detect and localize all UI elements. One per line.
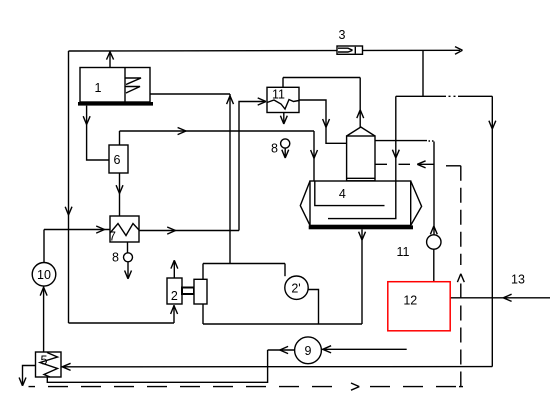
arrow down from 4 bbox=[359, 232, 366, 240]
wire 10 bottom to 5 bbox=[43, 286, 45, 352]
arrow left frame down bbox=[65, 207, 72, 215]
bottom dashed line bbox=[29, 386, 346, 388]
coupling between 2 and motor bbox=[182, 288, 194, 295]
wire 1 top stub bbox=[109, 51, 111, 68]
arrow right on 7 output bbox=[167, 227, 175, 234]
wire riser x=230 bbox=[229, 94, 231, 264]
tower roof bbox=[347, 127, 375, 136]
solution tank 12 red box bbox=[388, 282, 450, 331]
arrow up x=434 bbox=[430, 226, 437, 234]
dots at corner bbox=[429, 140, 434, 142]
arrow top line right end bbox=[455, 47, 463, 55]
wire into 7 left bbox=[44, 229, 110, 231]
ejector 3 nozzle bbox=[338, 47, 355, 54]
pump 9 circle bbox=[295, 337, 322, 364]
wire 7 bottom stub bbox=[127, 242, 129, 253]
wire valve to 12 bbox=[433, 249, 435, 282]
valve circle above 12 bbox=[427, 235, 441, 249]
svg-text:13: 13 bbox=[511, 273, 525, 287]
wire 13 inlet bbox=[450, 297, 550, 299]
absorber right edge upper bbox=[284, 264, 286, 277]
right chevron of 4 bbox=[411, 181, 422, 225]
arrow right on 131 line bbox=[178, 128, 186, 135]
wire top branch down x=423 bbox=[422, 50, 424, 96]
wire 6 to column top line bbox=[120, 130, 315, 132]
svg-text:9: 9 bbox=[305, 344, 312, 358]
svg-text:4: 4 bbox=[339, 187, 346, 201]
arrow into 7 left bbox=[96, 226, 104, 233]
drain stub below 8 upper bbox=[284, 148, 286, 157]
wire 2 top exhaust stub bbox=[173, 261, 175, 278]
arrow down x=492 bbox=[489, 121, 496, 129]
generator 1 divider bbox=[124, 68, 126, 103]
arrow left into 5 bbox=[62, 363, 70, 370]
dashed vertical lower part bbox=[460, 284, 462, 387]
wire 11 bottom stub bbox=[283, 113, 285, 124]
zigzag in 7 bbox=[110, 224, 139, 236]
ejector 3 box bbox=[337, 46, 363, 54]
wire left frame vertical bbox=[68, 51, 70, 323]
arrow down 11 bottom bbox=[280, 116, 287, 124]
generator 1 box bbox=[80, 68, 150, 103]
wire 11 top stub bbox=[282, 78, 284, 88]
evaporator 4 box bbox=[310, 181, 411, 225]
svg-text:8: 8 bbox=[271, 142, 278, 156]
wire down x=492 bbox=[491, 96, 493, 366]
dashed segment to vertical bbox=[446, 165, 461, 167]
wire riser x=239 to 11 bbox=[239, 102, 266, 231]
dots on y=96 bbox=[449, 95, 456, 97]
arrow up at top line bbox=[107, 52, 114, 60]
arrow into 2 bottom bbox=[171, 306, 178, 314]
left chevron of 4 bbox=[300, 181, 310, 225]
motor tall rect bbox=[194, 279, 207, 304]
svg-text:7: 7 bbox=[109, 230, 116, 244]
arrow down x=395 bbox=[392, 150, 399, 158]
wire 11 right to tower bbox=[299, 100, 347, 143]
wire corner down to pump 10 bbox=[43, 230, 45, 263]
arrow left at 9 right edge bbox=[323, 346, 331, 353]
arrow into 11 left bbox=[258, 98, 266, 105]
arrow down on x=314 bbox=[311, 150, 318, 158]
tower base line bbox=[347, 177, 375, 179]
pipe inside 4 from 395 bbox=[328, 181, 396, 219]
wire 5 left outlet bbox=[23, 366, 36, 386]
arrow down below 8 lower bbox=[125, 271, 132, 279]
svg-text:11: 11 bbox=[272, 88, 285, 102]
pump 10 circle bbox=[32, 263, 56, 287]
wire down to tower apex bbox=[359, 78, 361, 128]
svg-text:6: 6 bbox=[114, 153, 121, 167]
dashed vertical x=461 bbox=[460, 166, 462, 265]
wire down x=395 bbox=[395, 96, 397, 181]
absorber bottom edge bbox=[203, 323, 362, 325]
arrow right on bottom dash bbox=[351, 383, 359, 390]
wire 2' right link bbox=[308, 290, 318, 325]
wire 6 top stub bbox=[119, 131, 121, 145]
bottom dashed line right part bbox=[370, 386, 456, 388]
arrow left on 9 left wire bbox=[280, 346, 288, 353]
pump 2' circle bbox=[285, 276, 308, 299]
wire 6 bottom to 7 bbox=[119, 173, 121, 216]
valve circle 8 lower bbox=[124, 253, 133, 262]
compressor 2 box bbox=[167, 278, 182, 304]
arrow down outlet bbox=[19, 378, 26, 386]
arrow down 6-7 bbox=[116, 185, 123, 193]
wire 5 bottom to pump 9 loop bbox=[47, 350, 267, 382]
dashed feed into tower y=164 bbox=[375, 163, 434, 165]
absorber open box left edge bbox=[202, 264, 204, 325]
svg-text:3: 3 bbox=[339, 28, 346, 42]
box 6 bbox=[109, 145, 128, 173]
wire up into compressor 2 bbox=[173, 305, 175, 323]
heat exchanger 5 box bbox=[36, 352, 62, 377]
wire into 9 left bbox=[268, 349, 295, 351]
arrow down below 8 upper bbox=[282, 150, 289, 158]
wire into 9 right bbox=[321, 348, 406, 350]
wire down at x=314 bbox=[313, 131, 315, 181]
condenser 11 box bbox=[267, 87, 299, 112]
valve circle 8 upper bbox=[281, 139, 290, 148]
wire from 4 bottom down bbox=[361, 229, 363, 324]
wire 7 right output bbox=[139, 230, 239, 232]
arrow down on 1-6 wire bbox=[83, 116, 90, 124]
wire 1 right output bbox=[150, 93, 230, 95]
heat exchanger 7 box bbox=[110, 216, 139, 242]
heater zigzag in 1 bbox=[125, 78, 141, 93]
svg-text:2': 2' bbox=[291, 282, 300, 296]
arrow left on dashed feed bbox=[417, 161, 425, 168]
wire 1 bottom to 6 bbox=[87, 106, 109, 160]
arrow left on 13 bbox=[503, 294, 511, 301]
arrow up into 10 bbox=[40, 287, 47, 295]
arrow up on dashed vertical bbox=[457, 274, 464, 282]
absorber top edge bbox=[203, 263, 285, 265]
arrow up riser bbox=[227, 96, 234, 104]
tower rect bbox=[347, 136, 375, 181]
svg-text:2: 2 bbox=[171, 289, 178, 303]
reflux line y=140 bbox=[375, 140, 427, 142]
svg-text:5: 5 bbox=[41, 354, 48, 368]
wire long return into 5 right bbox=[61, 366, 492, 368]
arrow up on apex wire bbox=[357, 110, 364, 118]
svg-text:11: 11 bbox=[397, 245, 410, 259]
drain stub below 8 lower bbox=[127, 262, 129, 278]
wire condenser top line bbox=[283, 77, 360, 79]
wire top line bbox=[69, 49, 461, 52]
wire down x=434 to valve bbox=[433, 142, 435, 235]
svg-text:8: 8 bbox=[112, 251, 119, 265]
bar under 1 bbox=[78, 102, 153, 106]
svg-text:10: 10 bbox=[37, 268, 51, 282]
zigzag in 5 bbox=[40, 353, 58, 378]
arrow up exhaust bbox=[171, 260, 178, 268]
pipe inside 4 from 314 bbox=[315, 181, 385, 206]
svg-text:12: 12 bbox=[403, 294, 417, 308]
wire y=96 to right bbox=[396, 95, 493, 97]
svg-text:1: 1 bbox=[95, 81, 102, 95]
arrow down on x=326 bbox=[323, 119, 330, 127]
wavy line in 11 bbox=[267, 100, 299, 110]
bar under 4 bbox=[309, 225, 413, 229]
wire bottom left horizontal bbox=[69, 322, 175, 324]
